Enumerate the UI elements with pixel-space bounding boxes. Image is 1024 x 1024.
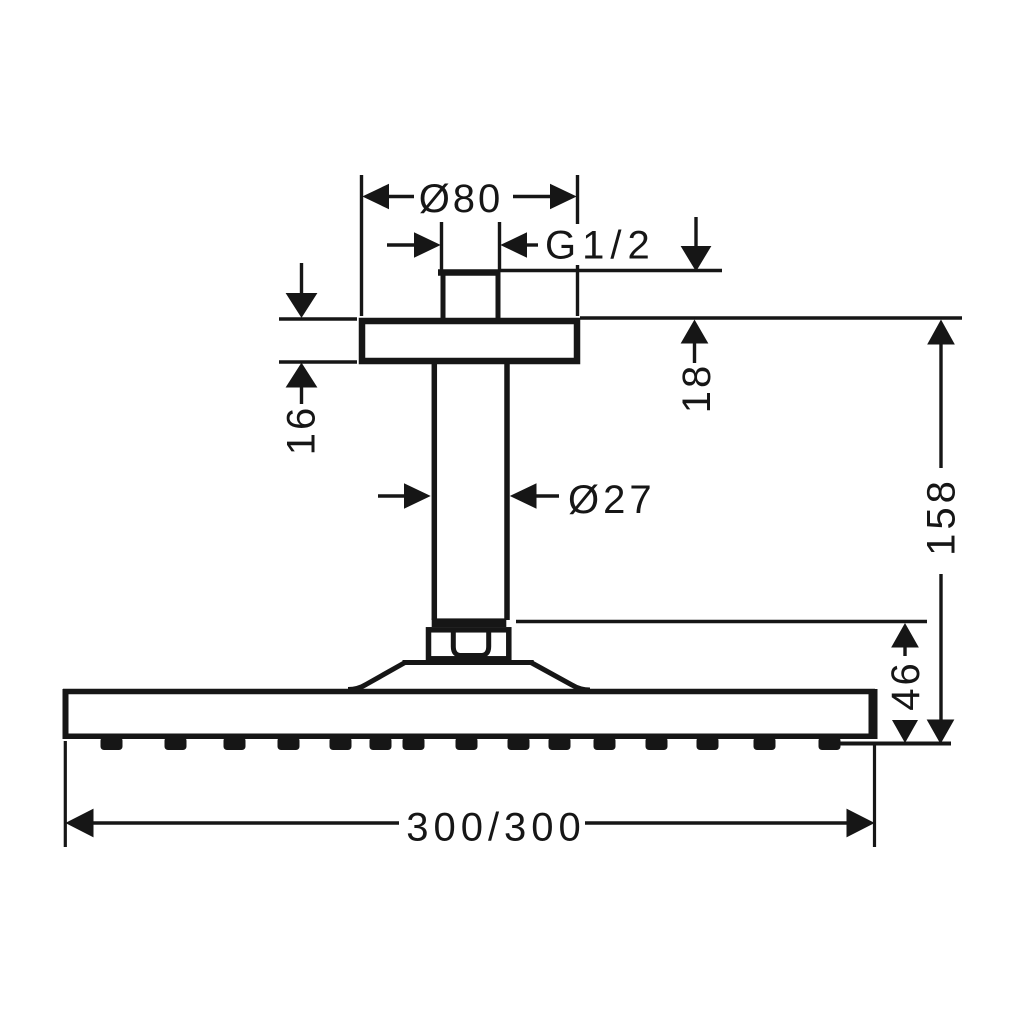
- dim 46 down arrow: [892, 720, 918, 743]
- dim G1/2 extension line left: [440, 222, 443, 272]
- dim Ø27 arrow left: [378, 484, 430, 508]
- thread top level line: [500, 269, 722, 272]
- dim 46 up arrow: [892, 624, 918, 656]
- spray nozzles: [101, 737, 841, 750]
- svg-text:300/300: 300/300: [406, 806, 586, 850]
- union nut inner collar: [453, 629, 488, 656]
- svg-text:Ø80: Ø80: [419, 177, 504, 221]
- dim 18 up arrow: [682, 321, 708, 364]
- dim Ø80 arrow right: [513, 185, 576, 209]
- svg-text:46: 46: [884, 660, 928, 711]
- dim 16 up arrow: [287, 364, 317, 405]
- pipe Ø27: [434, 364, 507, 620]
- dim Ø80 extension line right upper segment: [576, 175, 579, 224]
- dim Ø80 arrow left: [364, 185, 415, 209]
- nut top level line to 46 dim: [516, 620, 927, 623]
- shower head plate: [63, 689, 875, 739]
- dim 300/300 extension line left: [64, 741, 67, 847]
- dim 300/300 arrow right: [585, 810, 874, 837]
- dim 16 tick at flange bottom: [279, 360, 357, 363]
- dim 300/300 arrow left: [67, 810, 400, 837]
- dim Ø80 extension line left: [360, 175, 363, 316]
- dim G1/2 down arrow at thread top level: [682, 217, 711, 271]
- svg-text:Ø27: Ø27: [568, 478, 656, 522]
- dim 158 lower shaft and down arrow: [928, 574, 954, 743]
- cone transition top: [403, 660, 534, 665]
- dim 158 up arrow: [928, 321, 954, 469]
- dim 16 down arrow: [287, 263, 317, 317]
- dim 300/300 extension line right: [873, 742, 876, 847]
- flange top level line to 158 dim: [580, 316, 962, 319]
- pipe end cap: [432, 618, 507, 627]
- cone left slope: [348, 663, 405, 690]
- dim G1/2 extension line right: [498, 222, 501, 272]
- union nut outer: [429, 630, 509, 659]
- head bottom level line to 158 dim: [840, 742, 951, 746]
- ceiling flange plate: [362, 321, 577, 361]
- cone right slope: [531, 663, 590, 691]
- svg-text:158: 158: [920, 477, 964, 556]
- dim 16 tick at flange top: [279, 317, 357, 320]
- thread nipple G1/2: [438, 271, 501, 318]
- dim Ø27 arrow right: [511, 484, 559, 508]
- dim Ø80 extension line right lower segment: [576, 265, 579, 316]
- svg-text:G1/2: G1/2: [545, 224, 656, 268]
- dim G1/2 arrow left: [387, 233, 440, 257]
- dim G1/2 arrow right: [502, 233, 539, 257]
- svg-text:18: 18: [675, 363, 719, 414]
- svg-text:16: 16: [280, 405, 324, 456]
